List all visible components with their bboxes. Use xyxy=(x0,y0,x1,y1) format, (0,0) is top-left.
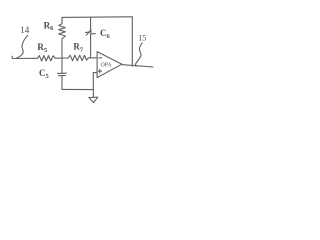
wire node A down to capacitor C5 xyxy=(61,58,63,73)
op-amp inverting minus sign xyxy=(99,57,102,59)
resistor R6 vertical with leads xyxy=(59,17,66,58)
resistor R7 xyxy=(68,55,88,60)
wire input left segment with hooked tip xyxy=(12,56,38,58)
svg-text:R7: R7 xyxy=(73,42,84,54)
svg-text:OPA: OPA xyxy=(101,62,113,69)
wire R5 to R7 through node A xyxy=(55,57,68,59)
wire C6 branch upper xyxy=(90,17,92,31)
svg-text:C5: C5 xyxy=(39,68,50,80)
svg-text:14: 14 xyxy=(20,25,30,35)
wire C6 branch lower to inverting node xyxy=(90,34,92,58)
svg-text:C6: C6 xyxy=(100,28,111,40)
wire op-amp output xyxy=(122,65,153,67)
wire R7 to op-amp inverting input xyxy=(88,57,97,59)
terminal lead squiggle node 15 xyxy=(135,43,142,67)
capacitor C6 plates xyxy=(86,31,92,33)
wire top feedback rail xyxy=(62,17,132,67)
wire bottom rail xyxy=(62,88,93,90)
svg-text:R5: R5 xyxy=(37,42,48,54)
op-amp non-inverting plus sign xyxy=(98,70,101,73)
wire to non-inverting input xyxy=(93,72,97,89)
ground arrow xyxy=(92,90,94,98)
svg-text:R6: R6 xyxy=(44,20,55,32)
capacitor C5 plates xyxy=(58,72,67,74)
terminal lead squiggle node 14 xyxy=(17,35,28,58)
wire C5 to bottom rail xyxy=(61,76,63,89)
svg-text:15: 15 xyxy=(138,33,146,42)
op-amp U1 triangle xyxy=(97,52,122,78)
resistor R5 xyxy=(38,56,56,61)
